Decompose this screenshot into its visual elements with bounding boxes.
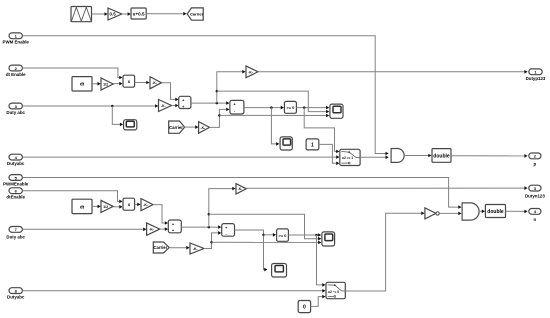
product block 2 xyxy=(123,198,135,210)
svg-text:Dutyabc: Dutyabc xyxy=(7,294,25,299)
sum1 block xyxy=(179,96,191,109)
wire Duty abc to gain xyxy=(22,104,158,108)
output port 3 xyxy=(529,185,541,191)
wire gain to sum1 input1 xyxy=(162,83,179,102)
input port 1 xyxy=(9,33,22,39)
wire double1 to out2 xyxy=(451,154,528,158)
junction sum3 out xyxy=(208,226,211,229)
wire gain to sum3 input1 xyxy=(153,205,168,225)
junction sum4 branch xyxy=(262,234,265,237)
wire dt2 to gain xyxy=(92,205,101,209)
input port 5 xyxy=(9,175,22,181)
svg-text:p: p xyxy=(534,161,537,166)
junction carrier branch 2 xyxy=(210,241,213,244)
scope1 (duty) xyxy=(124,120,137,130)
svg-text:n: n xyxy=(534,217,537,222)
svg-text:-K-: -K- xyxy=(149,228,154,232)
wire branch to scope3 input3 xyxy=(212,241,322,245)
data type conversion double2 xyxy=(485,205,505,218)
wire double2 to out4 xyxy=(506,210,528,214)
junction relational2 out xyxy=(315,234,318,237)
wire constant 1 to switch1 input3 xyxy=(319,144,340,165)
triangle-wave source block xyxy=(71,7,92,22)
relational operator >= 0 #2 xyxy=(277,229,289,241)
svg-text:PWMEnable: PWMEnable xyxy=(3,181,29,186)
output port 2 xyxy=(529,153,541,159)
wire product to gain -K- 1 xyxy=(135,81,150,85)
gain -K- carrier 2 xyxy=(190,243,204,254)
scope 3-input xyxy=(330,104,343,118)
svg-text:u2 >= 1: u2 >= 1 xyxy=(342,156,353,160)
svg-text:PWM Enable: PWM Enable xyxy=(3,40,30,45)
junction sum2 out xyxy=(270,106,273,109)
input port 6 xyxy=(9,188,22,194)
input port 7 xyxy=(9,227,22,233)
wire Dutyp123 long line to out1 xyxy=(258,70,528,74)
svg-text:1: 1 xyxy=(311,142,314,148)
wire relational2 branch to switch2 input1 xyxy=(317,235,326,287)
gain -K- dt chain xyxy=(150,77,162,89)
wire sum3 to sum4 input1 xyxy=(181,225,221,229)
wire product2 to gain -K- xyxy=(135,203,141,207)
wire PWMEnable to AND2 input1 xyxy=(22,178,461,209)
sum2 block xyxy=(230,100,244,114)
svg-text:u+0.5: u+0.5 xyxy=(133,11,145,16)
svg-text:Dutyp123: Dutyp123 xyxy=(526,76,546,81)
AND gate 2 xyxy=(462,203,479,220)
switch2 block xyxy=(326,282,345,298)
constant block dt xyxy=(72,77,92,91)
svg-text:0.5: 0.5 xyxy=(110,12,117,17)
wire branch to scope3 input2 xyxy=(209,214,321,240)
wire carrier gain to sum2 input2 xyxy=(210,108,230,128)
gain -K- top (Dutyp) xyxy=(246,66,258,78)
svg-text:Carrier: Carrier xyxy=(169,125,183,130)
junction carrier branch xyxy=(218,114,221,117)
wire up to gain -K- (Dutyn) xyxy=(209,187,236,227)
wire sum1 to sum2 input1 xyxy=(191,101,230,105)
bias block u+0.5 xyxy=(131,8,146,19)
wire port8 to switch2 input2 xyxy=(22,289,325,293)
wire dtEnable to product2 top input xyxy=(22,191,122,204)
svg-text:Duty abc: Duty abc xyxy=(6,110,25,115)
gain -K- dt chain 2 xyxy=(141,199,153,211)
wire relational to scope input1 xyxy=(296,106,329,110)
wire AND2 to double2 xyxy=(479,210,485,214)
wire switch2 to NOT gate xyxy=(345,211,424,291)
svg-text:Dutyn123: Dutyn123 xyxy=(525,193,545,198)
svg-text:double: double xyxy=(487,209,504,215)
input port 3 xyxy=(9,103,22,109)
svg-text:dtEnable: dtEnable xyxy=(6,195,25,200)
scope3 3-input xyxy=(322,232,335,246)
svg-text:>= 0: >= 0 xyxy=(278,233,287,238)
AND gate 1 xyxy=(391,149,404,163)
wire sum4 down to scope4 with branch to relational2 xyxy=(235,230,268,271)
junction relational out xyxy=(303,106,306,109)
wire bias to goto Carrier xyxy=(146,12,186,16)
wire NOT to AND2 input2 xyxy=(439,212,461,216)
svg-text:-K-: -K- xyxy=(193,247,198,251)
input port 4 xyxy=(9,154,22,160)
svg-text:Carrier: Carrier xyxy=(154,245,168,250)
sum3 block xyxy=(168,220,181,233)
svg-text:>= 0: >= 0 xyxy=(286,105,295,110)
constant 1 xyxy=(306,139,319,150)
wire dt Enable to product top input xyxy=(22,68,122,79)
wire carrier gain to sum4 input2 xyxy=(204,231,221,248)
product block xyxy=(123,75,135,87)
wire PWM Enable to AND1 input1 xyxy=(22,36,388,156)
wire gain to sum3 input2 xyxy=(160,227,168,231)
svg-text:dt: dt xyxy=(80,82,85,87)
switch1 block xyxy=(340,149,360,165)
gain -K- carrier xyxy=(199,122,210,134)
wire port7 to gain xyxy=(22,228,146,232)
svg-text:dt: dt xyxy=(80,204,85,209)
output port 4 xyxy=(529,209,541,215)
input port 2 xyxy=(9,65,22,71)
wire AND1 to double1 xyxy=(405,154,432,158)
goto tag Carrier xyxy=(187,8,203,20)
wire from tag to gain 2 xyxy=(169,246,189,250)
svg-text:-K-: -K- xyxy=(143,203,148,207)
NOT gate xyxy=(425,208,439,219)
wire branch down to scope2 xyxy=(271,108,279,146)
svg-text:dt Enable: dt Enable xyxy=(6,72,26,77)
junction on Duty abc wire xyxy=(111,105,114,108)
wire gain to sum1 input2 xyxy=(172,104,179,108)
scope2 (below relational) xyxy=(280,137,292,150)
junction on vertical for scope branch xyxy=(216,90,219,93)
junction sum1 out xyxy=(216,102,219,105)
relational operator >= 0 xyxy=(284,101,296,113)
svg-text:-K-: -K- xyxy=(200,126,205,130)
gain 1/2 xyxy=(101,78,113,90)
svg-text:x: x xyxy=(128,202,131,207)
wire relational branch to switch1 input1 xyxy=(304,108,339,154)
wire up to top gain -K- xyxy=(217,70,246,103)
wire port4 to switch1 input2 xyxy=(22,155,339,159)
svg-text:1/2: 1/2 xyxy=(103,205,108,209)
wire relational2 to scope3 input1 xyxy=(288,233,321,237)
scope4 xyxy=(272,264,287,278)
gain -K- duty 2 xyxy=(147,223,160,235)
constant 0 xyxy=(298,301,310,313)
svg-text:-K-: -K- xyxy=(248,70,253,74)
wire branch to scope input2 xyxy=(217,91,329,113)
gain 1/2 bottom xyxy=(101,200,113,212)
gain -K- duty xyxy=(159,100,172,112)
svg-text:double: double xyxy=(433,154,450,160)
wire gain0.5 to bias xyxy=(122,12,131,16)
from tag Carrier xyxy=(169,121,185,133)
output port 1 xyxy=(529,69,542,75)
wire switch1 to AND1 input2 xyxy=(360,156,389,160)
wire branch to relational2 xyxy=(264,233,277,237)
svg-text:u2 ~= 0: u2 ~= 0 xyxy=(328,290,339,294)
wire sum2 to relational xyxy=(244,106,284,110)
wire Dutyn123 long line to out3 xyxy=(246,186,527,190)
sum4 block xyxy=(222,224,235,237)
svg-text:Dutyabc: Dutyabc xyxy=(7,161,25,166)
svg-text:-K-: -K- xyxy=(238,187,242,191)
wire dt to gain 1/2 xyxy=(92,82,101,86)
svg-text:x: x xyxy=(128,79,131,84)
svg-text:-K-: -K- xyxy=(161,104,166,108)
wire constant 0 to switch2 input3 xyxy=(311,295,326,307)
wire gain to product bottom input xyxy=(113,82,122,86)
svg-text:-K-: -K- xyxy=(152,81,157,85)
wire gain to product2 bottom input xyxy=(113,205,122,209)
from tag Carrier 2 xyxy=(153,242,169,253)
wire branch to scope input3 xyxy=(219,114,329,118)
svg-text:Duty abc: Duty abc xyxy=(6,234,25,239)
junction on vertical for scope branch 2 xyxy=(208,213,211,216)
svg-text:Carrier: Carrier xyxy=(190,11,204,16)
gain -K- top (Dutyn) xyxy=(236,184,246,194)
data type conversion double1 xyxy=(432,149,451,163)
svg-text:0: 0 xyxy=(303,305,306,311)
constant block dt 2 xyxy=(72,199,92,213)
wire branch to scope1 xyxy=(112,106,123,126)
gain 0.5 xyxy=(108,8,122,20)
svg-text:1/2: 1/2 xyxy=(103,83,108,87)
wire from tag to gain xyxy=(185,125,199,129)
input port 8 xyxy=(9,288,22,294)
wire source to gain0.5 xyxy=(92,12,108,16)
